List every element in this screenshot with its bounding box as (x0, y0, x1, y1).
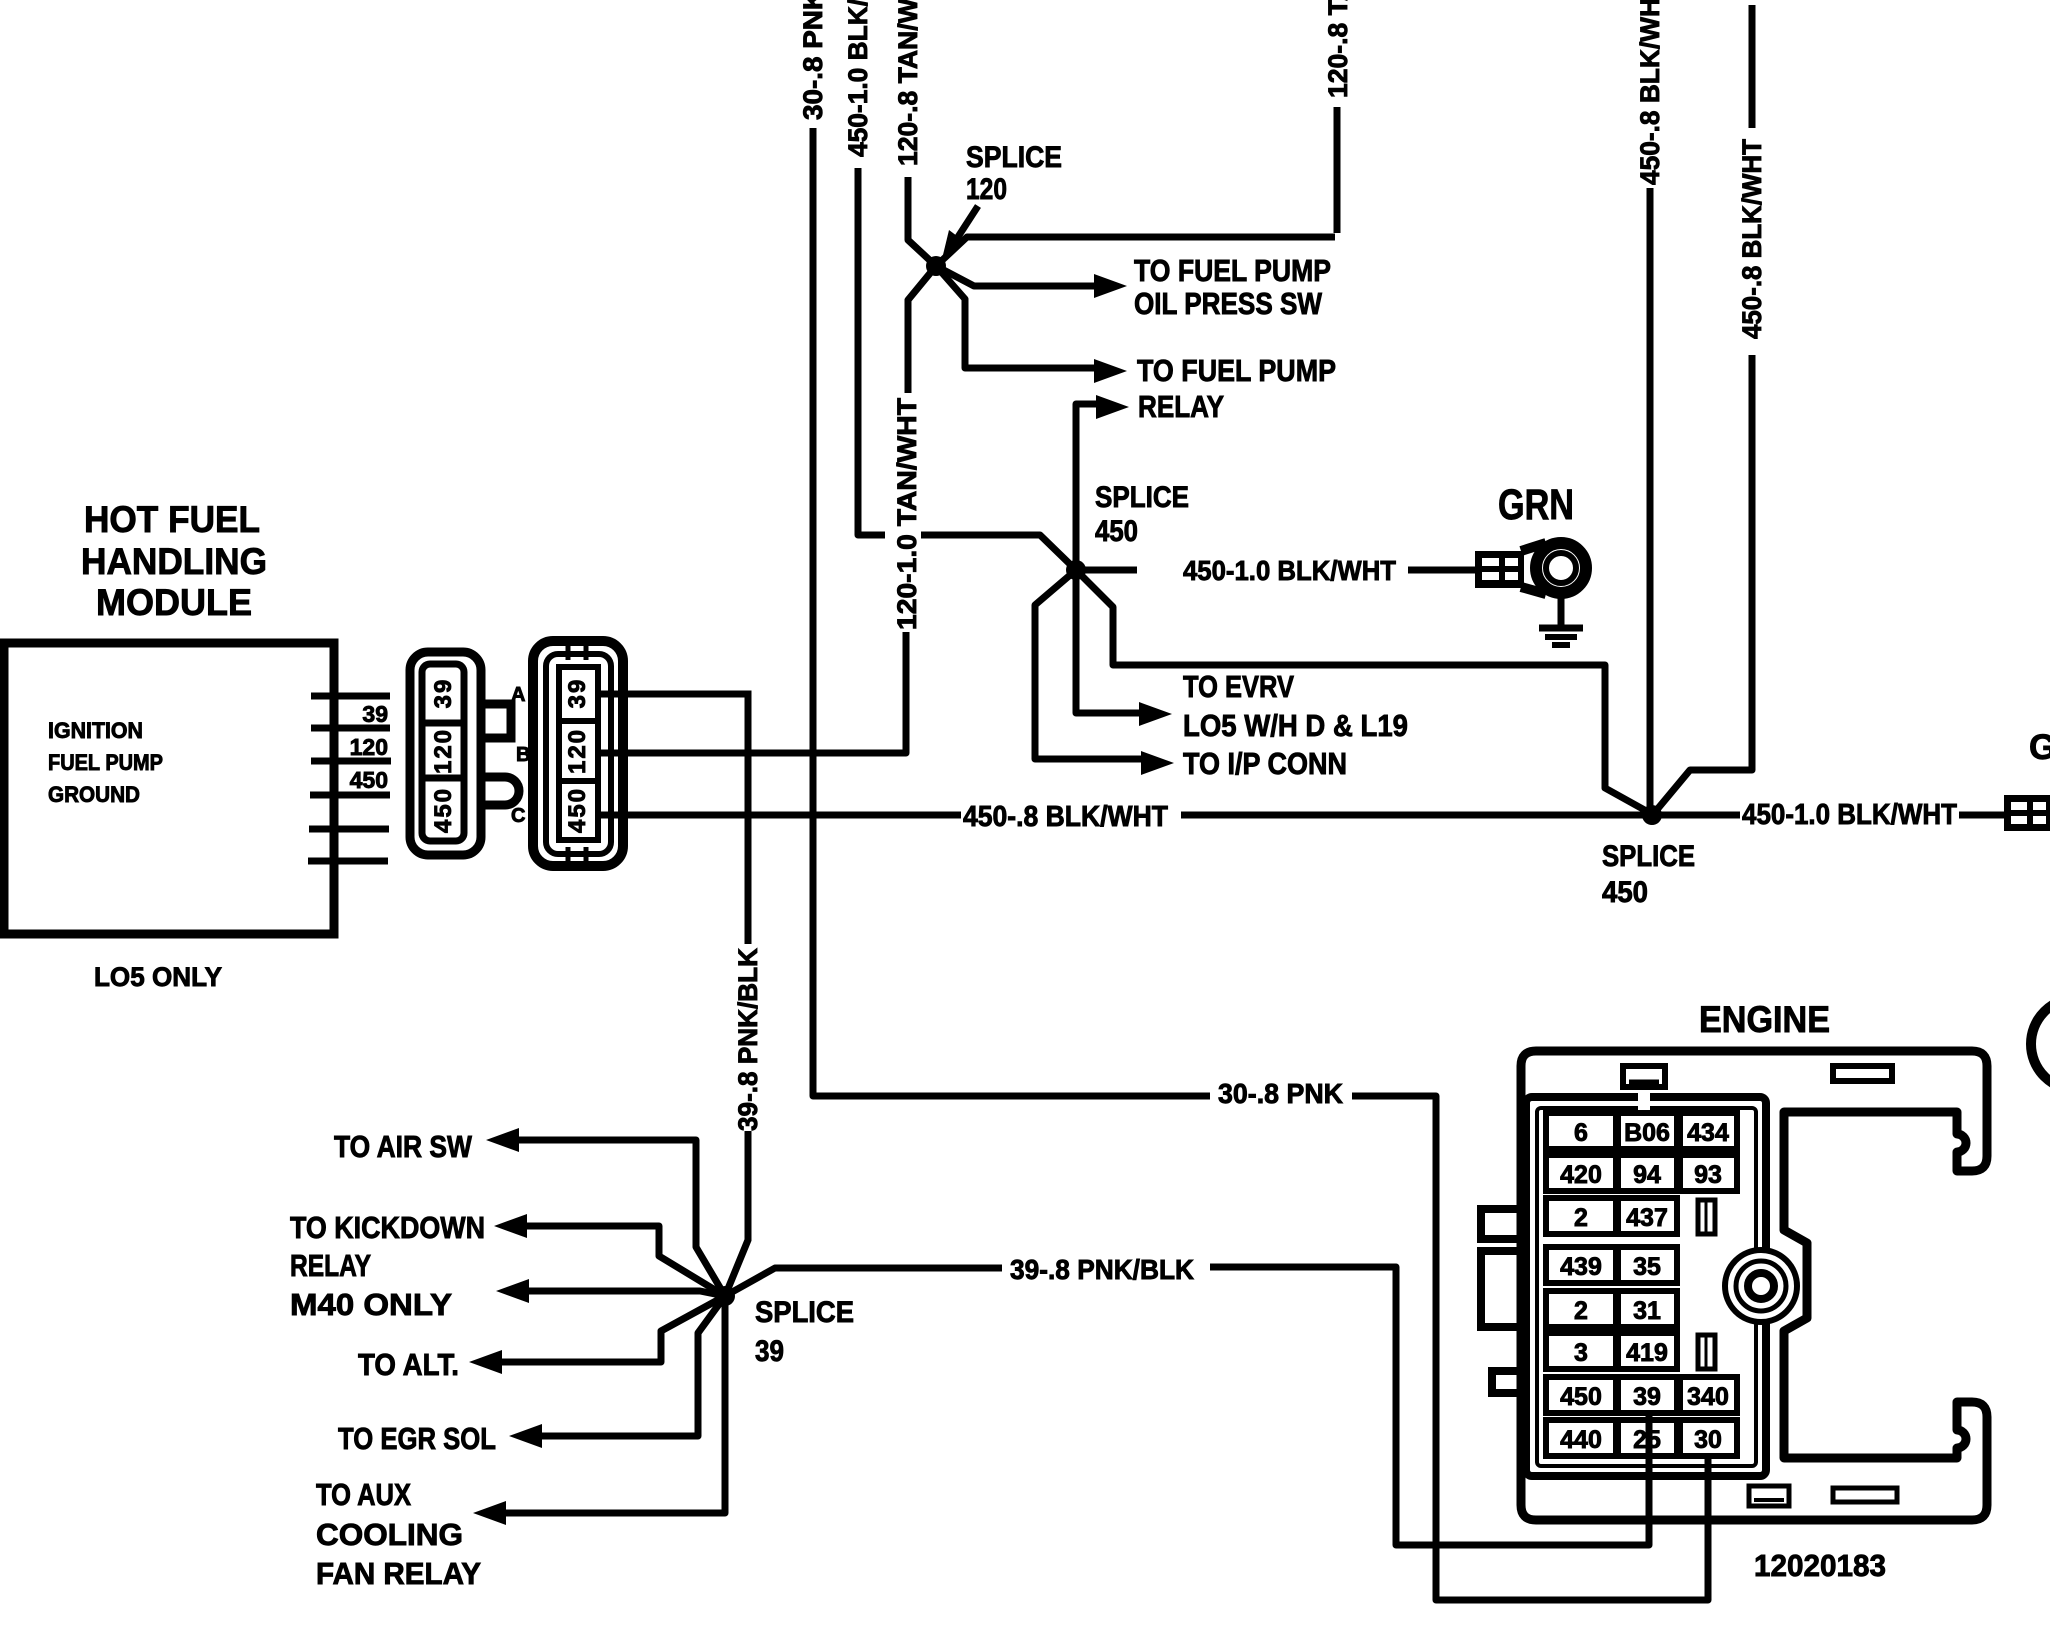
svg-text:C: C (511, 805, 525, 827)
ground symbol (1539, 625, 1583, 632)
svg-text:TO EVRV: TO EVRV (1183, 669, 1294, 704)
connector C2 outer shell (533, 641, 623, 866)
ENGINE bulkhead connector outer frame (1521, 1051, 1987, 1520)
svg-text:12020183: 12020183 (1754, 1548, 1886, 1583)
wire 120-1.0 TAN/WHT from splice 120 down to connector pin B (598, 266, 936, 753)
svg-text:OIL PRESS SW: OIL PRESS SW (1134, 286, 1323, 321)
svg-text:30-.8 PNK: 30-.8 PNK (1218, 1078, 1343, 1109)
svg-text:TO FUEL PUMP: TO FUEL PUMP (1137, 353, 1336, 388)
svg-text:FAN RELAY: FAN RELAY (316, 1556, 481, 1591)
svg-text:SPLICE: SPLICE (755, 1296, 854, 1329)
wire splice 120 to fuel pump oil press sw (936, 266, 1097, 286)
svg-text:M40 ONLY: M40 ONLY (290, 1287, 452, 1322)
arrowhead to fuel pump oil press sw (1094, 274, 1127, 298)
arrowhead to EVRV (1139, 702, 1172, 726)
wire splice 39 m40 branch (528, 1291, 725, 1296)
arrowhead to fuel pump relay (1094, 359, 1127, 383)
ground stem (1558, 598, 1565, 627)
wire splice 120 to fuel pump relay (936, 266, 1097, 368)
wire 39 overlay through cell 25 (1646, 1413, 1653, 1545)
svg-text:120: 120 (564, 728, 591, 774)
svg-text:450-1.0 BLK/WHT: 450-1.0 BLK/WHT (1742, 799, 1957, 831)
splice 450 (lower) node (1642, 805, 1662, 825)
arrowhead to alt (469, 1350, 502, 1374)
arrowhead to air sw (486, 1128, 519, 1152)
svg-text:30: 30 (1694, 1426, 1722, 1454)
GRN ground ring terminal (1475, 481, 1586, 645)
svg-text:LO5 W/H D & L19: LO5 W/H D & L19 (1183, 708, 1408, 743)
svg-text:450-.8 BLK/WHT: 450-.8 BLK/WHT (1635, 0, 1665, 185)
connector C2 cell block (559, 667, 598, 840)
svg-text:B06: B06 (1624, 1119, 1670, 1147)
svg-text:39: 39 (430, 678, 457, 709)
svg-text:TO AUX: TO AUX (316, 1477, 411, 1512)
svg-text:30-.8 PNK: 30-.8 PNK (798, 0, 828, 120)
wire 450 pin long horizontal 450-.8 BLK/WHT (598, 812, 2004, 819)
svg-text:120-.8 TAN/WHT: 120-.8 TAN/WHT (1323, 0, 1353, 98)
svg-text:SPLICE: SPLICE (1095, 481, 1189, 514)
svg-text:120: 120 (966, 173, 1007, 206)
svg-text:440: 440 (1560, 1426, 1602, 1454)
wire splice 450 right to GRN terminal (1085, 567, 1475, 574)
wire 450-.8 BLK/WHT vertical left into lower splice (1647, 188, 1654, 810)
hot fuel handling module box (4, 643, 334, 934)
svg-text:450-1.0 BLK/WHT: 450-1.0 BLK/WHT (843, 0, 873, 157)
arrowhead to kickdown (494, 1214, 527, 1238)
svg-text:ENGINE: ENGINE (1699, 999, 1830, 1040)
wire 450-.8 BLK/WHT vertical right into lower splice (1655, 5, 1752, 812)
ENGINE top slot B (1833, 1066, 1892, 1081)
svg-text:450: 450 (564, 787, 591, 833)
svg-text:419: 419 (1626, 1339, 1668, 1367)
splice 120 node (926, 256, 946, 276)
ENGINE top slot A (1623, 1066, 1665, 1087)
svg-text:450: 450 (350, 767, 388, 793)
C1 index tab C (481, 777, 519, 805)
svg-text:450: 450 (1560, 1383, 1602, 1411)
ENGINE grommet circle (1725, 1250, 1797, 1322)
partial circle at right edge (2031, 998, 2050, 1090)
module pin stubs (308, 696, 391, 861)
wire splice 39 to air sw (518, 1140, 725, 1296)
svg-text:39: 39 (755, 1335, 784, 1368)
wire 120-.8 TAN/WHT vertical into splice 120 (908, 177, 936, 266)
svg-text:39: 39 (362, 701, 388, 727)
svg-text:TO EGR SOL: TO EGR SOL (338, 1421, 496, 1456)
arrowhead to aux (473, 1501, 506, 1525)
connector C1 outer shell (410, 652, 481, 855)
svg-text:450-.8 BLK/WHT: 450-.8 BLK/WHT (963, 801, 1168, 833)
ENGINE bottom slot C (1749, 1486, 1789, 1506)
svg-text:SPLICE: SPLICE (1602, 840, 1695, 873)
splice 39 node (715, 1286, 735, 1306)
wire splice 39 right 39-.8 PNK/BLK (725, 1267, 1649, 1545)
svg-text:HANDLING: HANDLING (81, 541, 267, 582)
splice 120 leader arrow (956, 206, 978, 240)
wire splice 39 to alt (501, 1296, 725, 1362)
wire splice 450 to lower splice 450 (1076, 570, 1650, 813)
svg-text:340: 340 (1687, 1383, 1729, 1411)
svg-text:120-.8 TAN/WHT: 120-.8 TAN/WHT (893, 0, 923, 166)
svg-text:39-.8 PNK/BLK: 39-.8 PNK/BLK (733, 948, 763, 1131)
arrowhead third to relay (1096, 395, 1129, 419)
svg-text:TO I/P CONN: TO I/P CONN (1183, 746, 1347, 781)
svg-text:3: 3 (1574, 1339, 1588, 1367)
wire splice 120 to 120-.8 TAN vertical at right (936, 107, 1337, 266)
svg-text:120: 120 (350, 734, 388, 760)
ENGINE left mounting tabs (1481, 1209, 1521, 1239)
svg-text:RELAY: RELAY (1138, 389, 1224, 424)
svg-text:TO FUEL PUMP: TO FUEL PUMP (1134, 253, 1331, 288)
svg-text:MODULE: MODULE (96, 582, 252, 623)
svg-text:450-.8 BLK/WHT: 450-.8 BLK/WHT (1737, 139, 1767, 339)
svg-text:93: 93 (1694, 1161, 1722, 1189)
svg-text:450: 450 (1602, 876, 1648, 909)
svg-text:RELAY: RELAY (290, 1248, 371, 1283)
svg-text:420: 420 (1560, 1161, 1602, 1189)
wire 30 overlay below cell 30 (1705, 1455, 1712, 1600)
svg-text:439: 439 (1560, 1253, 1602, 1281)
svg-text:TO AIR SW: TO AIR SW (334, 1129, 473, 1164)
svg-text:2: 2 (1574, 1204, 1588, 1232)
wire splice 39 to aux cooling fan relay (505, 1296, 725, 1513)
ENGINE terminal cells (1546, 1113, 1737, 1456)
svg-text:TO ALT.: TO ALT. (358, 1347, 459, 1382)
ring (1536, 543, 1586, 593)
svg-text:HOT FUEL: HOT FUEL (84, 499, 260, 540)
svg-text:437: 437 (1626, 1204, 1668, 1232)
wire 39 pin to vertical (598, 694, 748, 1296)
svg-text:GRN: GRN (1498, 481, 1574, 529)
right terminal crimp (2004, 795, 2050, 831)
ENGINE small slots row3 row6 (1698, 1200, 1715, 1234)
wire splice 39 to egr sol (541, 1296, 725, 1436)
svg-text:COOLING: COOLING (316, 1517, 463, 1552)
svg-text:FUEL PUMP: FUEL PUMP (48, 750, 163, 775)
svg-text:GROUND: GROUND (48, 782, 140, 807)
splice 450 (upper) node (1066, 560, 1086, 580)
svg-text:450-1.0 BLK/WHT: 450-1.0 BLK/WHT (1183, 555, 1396, 586)
wire 30-.8 PNK vertical and route to ENGINE terminal 30 (813, 128, 1708, 1600)
arrowhead m40 (496, 1279, 529, 1303)
svg-text:120: 120 (430, 728, 457, 774)
ENGINE cell numbers (1560, 1119, 1729, 1454)
connector C2 inner shell (546, 654, 611, 854)
wire splice 39 to kickdown relay (526, 1226, 725, 1296)
svg-text:31: 31 (1633, 1297, 1661, 1325)
svg-text:39: 39 (564, 678, 591, 709)
svg-text:450: 450 (430, 787, 457, 833)
ENGINE bottom slot D (1833, 1488, 1897, 1502)
svg-text:94: 94 (1633, 1161, 1661, 1189)
svg-text:434: 434 (1687, 1119, 1729, 1147)
arrowhead to egr sol (509, 1424, 542, 1448)
wire splice 450 down to EVRV arrow (1076, 570, 1142, 713)
svg-text:450: 450 (1095, 515, 1138, 548)
svg-text:LO5 ONLY: LO5 ONLY (94, 962, 222, 992)
svg-text:35: 35 (1633, 1253, 1661, 1281)
ENGINE grid container (1526, 1097, 1766, 1476)
svg-text:120-1.0 TAN/WHT: 120-1.0 TAN/WHT (892, 397, 922, 630)
svg-text:TO KICKDOWN: TO KICKDOWN (290, 1210, 485, 1245)
svg-text:SPLICE: SPLICE (966, 141, 1062, 174)
connector C1 cell block (422, 664, 464, 841)
arrowhead to I/P CONN (1141, 751, 1174, 775)
svg-text:2: 2 (1574, 1297, 1588, 1325)
svg-text:6: 6 (1574, 1119, 1588, 1147)
svg-text:39-.8 PNK/BLK: 39-.8 PNK/BLK (1010, 1254, 1194, 1285)
svg-text:G: G (2029, 728, 2050, 767)
crimp (1475, 551, 1524, 588)
svg-text:IGNITION: IGNITION (48, 718, 143, 743)
C1 index tab A (481, 704, 511, 738)
svg-text:A: A (511, 684, 525, 706)
wire 450-1.0 BLK/WHT vertical into splice 450 (858, 168, 1076, 570)
wire splice 450 to I/P CONN arrow (1035, 570, 1144, 759)
svg-text:39: 39 (1633, 1383, 1661, 1411)
wire splice 450 up to relay arrow (1076, 404, 1099, 570)
